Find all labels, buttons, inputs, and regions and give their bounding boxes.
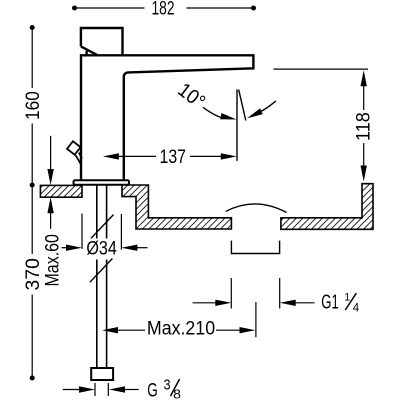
stream centerline — [236, 89, 238, 161]
svg-text:160: 160 — [22, 91, 44, 120]
svg-text:137: 137 — [160, 146, 187, 168]
dim O34 arrows — [62, 245, 148, 251]
svg-text:118: 118 — [353, 112, 375, 141]
drain tailpiece U — [231, 241, 279, 254]
dim G1 1/4 extension lines — [231, 278, 279, 309]
base plate — [74, 180, 130, 185]
basin bottom right strip + right wall — [281, 184, 373, 230]
angle arc left with arrow — [203, 107, 237, 122]
G3/8 fitting — [91, 368, 113, 380]
dim 182 dots — [72, 6, 77, 11]
counter left piece — [40, 185, 82, 197]
svg-text:G: G — [147, 380, 158, 400]
dim G3/8 arrows — [63, 386, 139, 392]
svg-text:G1: G1 — [321, 292, 339, 314]
label G3/8 — [147, 377, 181, 400]
faucet body and spout — [81, 55, 253, 180]
dim 137 — [103, 153, 237, 159]
counter right + basin left wall + bottom left strip — [122, 185, 231, 229]
handle — [81, 28, 123, 55]
svg-text:4: 4 — [353, 302, 360, 314]
dim O34 extension lines — [82, 214, 121, 250]
svg-text:3: 3 — [163, 377, 170, 394]
svg-text:Max.210: Max.210 — [147, 318, 215, 339]
svg-text:182: 182 — [152, 0, 175, 20]
hose break marks — [90, 215, 114, 283]
drain centerline extension — [255, 302, 257, 337]
svg-text:370: 370 — [22, 258, 44, 290]
svg-text:1: 1 — [344, 291, 350, 303]
dim Max.210 — [102, 327, 256, 333]
dim Max.60 arrows — [47, 136, 53, 229]
left dim line 160/370 — [31, 28, 33, 379]
svg-text:Ø34: Ø34 — [86, 238, 117, 260]
angle arc right with arrow — [246, 101, 276, 121]
svg-text:Max.60: Max.60 — [43, 234, 64, 287]
supply hoses — [97, 185, 107, 368]
dim 118 — [361, 70, 367, 181]
pop-up plug arc — [226, 204, 287, 213]
label G1 1/4 — [321, 291, 360, 314]
stream tilted line — [239, 90, 246, 121]
left dim dots — [30, 25, 35, 30]
drain lever knob — [67, 141, 82, 165]
dim G1 1/4 arrows — [193, 300, 315, 306]
dim G3/8 ticks — [95, 383, 108, 396]
dim 182 line — [75, 7, 254, 9]
svg-text:8: 8 — [173, 387, 181, 400]
spout outlet reference line — [274, 68, 369, 70]
